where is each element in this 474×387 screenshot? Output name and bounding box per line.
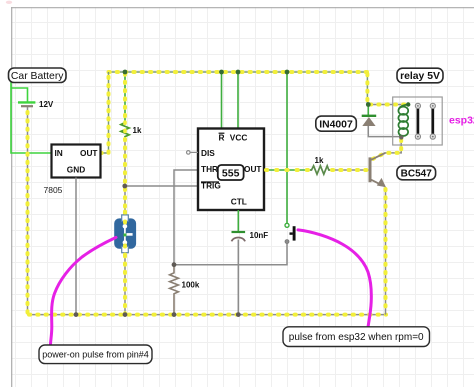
- svg-text:1k: 1k: [133, 126, 142, 135]
- svg-text:esp32: esp32: [449, 114, 474, 126]
- label: Car Battery: [9, 68, 67, 83]
- svg-text:OUT: OUT: [244, 164, 262, 174]
- resistor R1 1k: [121, 121, 129, 138]
- wire: R2 to BC547 base (gray selected): [330, 169, 368, 171]
- wire: battery + to 7805 IN (green L): [11, 82, 52, 153]
- svg-text:100k: 100k: [182, 280, 200, 289]
- svg-text:12V: 12V: [39, 100, 54, 109]
- wire: node to relay coil top (selected yellow): [367, 104, 408, 106]
- wire: switch bottom to 100k node (gray): [174, 244, 287, 265]
- junction node: gnd/7805: [74, 312, 79, 317]
- wire: 7805 GND to ground bus: [75, 178, 77, 315]
- resistor R3 100k: [170, 265, 179, 315]
- svg-text:power-on pulse from pin#4: power-on pulse from pin#4: [42, 350, 149, 360]
- svg-text:IN4007: IN4007: [319, 120, 353, 131]
- junction node: bus/switch: [285, 70, 290, 75]
- svg-text:R: R: [219, 133, 225, 143]
- relay coil: [398, 105, 408, 138]
- 555 inner label box: [218, 165, 244, 180]
- svg-text:THR: THR: [201, 164, 218, 174]
- svg-text:555: 555: [222, 168, 240, 180]
- label: relay 5V: [397, 68, 443, 83]
- svg-text:7805: 7805: [44, 185, 63, 195]
- relay contact bar 1: [415, 103, 420, 139]
- diode D1 IN4007: [362, 105, 401, 137]
- yellow dash at button terminals: [123, 212, 127, 256]
- junction node: bus/VCC: [236, 70, 241, 75]
- junction node: bus/R1: [123, 70, 128, 75]
- relay K1 outer box: [393, 97, 443, 145]
- junction node: coil bottom: [399, 135, 403, 139]
- pushbutton S1 (blue): [114, 215, 136, 253]
- wire: ground bus (gray, selected yellow): [28, 314, 387, 316]
- relay contact bar 2: [430, 103, 435, 139]
- 555 timer U1 box: [198, 129, 264, 211]
- junction node: THR/100k: [172, 262, 177, 267]
- wire: CTL to capacitor (green): [237, 210, 239, 231]
- wire: collector to relay coil (selected yellow): [371, 139, 401, 160]
- junction node: TRIG: [122, 184, 127, 189]
- junction node: gnd/cap: [236, 312, 241, 317]
- junction node: bus/reset: [219, 70, 224, 75]
- wire: bus to 555 reset pin (green): [221, 72, 223, 129]
- wire: battery top link: [11, 88, 28, 102]
- junction node: gnd/button: [123, 312, 128, 317]
- label: pulse from esp32 when rpm=0: [283, 327, 430, 347]
- svg-text:pulse from esp32 when rpm=0: pulse from esp32 when rpm=0: [289, 332, 424, 343]
- svg-text:CTL: CTL: [231, 197, 247, 207]
- svg-text:Car Battery: Car Battery: [11, 71, 64, 82]
- svg-text:BC547: BC547: [401, 169, 433, 180]
- label: power-on pulse from pin#4: [39, 345, 152, 364]
- wire: bus to R1 1k branch (green selected): [124, 72, 126, 121]
- svg-text:GND: GND: [67, 164, 85, 174]
- annotation arrow: to esp32 switch: [298, 230, 371, 327]
- wire: battery - down to ground bus (gray, selected yellow): [27, 107, 29, 315]
- wire: R1 down through pushbutton to ground bus (selected yellow): [124, 138, 126, 315]
- svg-text:relay 5V: relay 5V: [400, 71, 440, 82]
- wire: emitter to ground bus (selected yellow): [385, 187, 387, 315]
- wire: bus to esp32 switch (green): [286, 72, 288, 223]
- resistor R2 1k: [310, 166, 330, 174]
- switch S2 (esp32 pulse): [285, 223, 294, 243]
- svg-text:IN: IN: [55, 148, 63, 158]
- pin DIS open terminal: [187, 151, 191, 155]
- junction node: coil top: [406, 102, 410, 106]
- wire: 555 OUT to base resistor (green selected): [264, 169, 310, 171]
- junction node: relay/diode: [366, 102, 371, 107]
- transistor Q1 BC547: [370, 153, 386, 187]
- wire: 7805 OUT riser (selected yellow): [101, 72, 109, 153]
- label: IN4007: [316, 116, 357, 131]
- wire: capacitor to ground bus (gray): [237, 240, 239, 315]
- 7805 regulator U2 box: [52, 145, 101, 178]
- wire: top 5V bus (selected yellow): [109, 71, 368, 73]
- svg-text:1k: 1k: [315, 156, 324, 165]
- junction node: gnd/100k: [172, 312, 177, 317]
- red smudge top-left: [6, 1, 12, 4]
- svg-text:VCC: VCC: [230, 133, 248, 143]
- label: BC547: [397, 166, 436, 180]
- annotation arrow: to pushbutton: [51, 237, 117, 344]
- capacitor C1 10nF: [232, 232, 246, 241]
- svg-text:10nF: 10nF: [250, 231, 269, 240]
- wire: TRIG to button column (gray): [125, 185, 198, 187]
- wire: right bus drop to relay node (selected yellow): [366, 72, 368, 105]
- battery B1 plates: [18, 102, 35, 106]
- wire: bus to 555 VCC pin (green): [237, 72, 239, 129]
- svg-text:DIS: DIS: [201, 148, 215, 158]
- svg-text:OUT: OUT: [80, 148, 98, 158]
- wire: THR to 100k node (gray): [174, 170, 198, 265]
